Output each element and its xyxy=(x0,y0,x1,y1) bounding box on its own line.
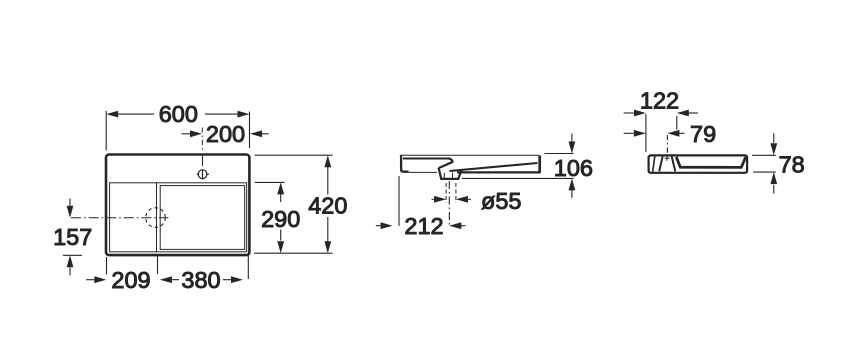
svg-text:200: 200 xyxy=(206,121,245,147)
dim 122 xyxy=(624,113,698,152)
dim o55 xyxy=(432,183,472,203)
end view drain centerline cross xyxy=(665,156,670,161)
dim 290 xyxy=(255,182,285,240)
dim 78 xyxy=(752,133,776,193)
dim 380 xyxy=(172,256,248,280)
top rim thin line xyxy=(400,154,539,156)
plan shelf inner outline xyxy=(110,183,157,252)
plan outer body rect xyxy=(106,155,249,256)
drain trap xyxy=(439,168,462,179)
svg-text:420: 420 xyxy=(308,193,347,219)
dim 420 xyxy=(254,155,333,253)
drain pipe walls xyxy=(444,173,452,179)
dim 157 xyxy=(63,199,82,276)
basin sloped bottom xyxy=(450,163,538,171)
shelf front step elbow xyxy=(439,158,453,168)
svg-text:79: 79 xyxy=(690,121,716,147)
svg-text:78: 78 xyxy=(779,152,805,178)
dim 79 xyxy=(624,133,685,158)
end view trap right side xyxy=(672,157,676,172)
faucet centerline up (ext of 200) xyxy=(201,128,203,153)
dim 209 xyxy=(86,256,158,280)
svg-text:290: 290 xyxy=(261,206,300,232)
svg-text:380: 380 xyxy=(181,267,220,293)
dim 200 xyxy=(182,133,269,135)
basin bottom slab xyxy=(457,171,541,173)
shelf cut profile thick xyxy=(401,156,409,172)
dim 600 xyxy=(106,111,249,151)
svg-text:212: 212 xyxy=(404,213,443,239)
dim 106 xyxy=(462,134,574,199)
drain dashed circle xyxy=(146,208,166,228)
horizontal centerline through drain xyxy=(71,217,169,219)
plan basin outer rim xyxy=(157,183,247,252)
end view left inner slant xyxy=(653,157,655,172)
svg-text:157: 157 xyxy=(53,224,92,250)
end view outer body xyxy=(649,155,748,172)
end view bowl profile xyxy=(676,157,745,168)
svg-text:122: 122 xyxy=(640,88,679,114)
right wall xyxy=(538,155,541,172)
svg-text:ø55: ø55 xyxy=(481,188,522,214)
svg-text:209: 209 xyxy=(111,267,150,293)
svg-text:600: 600 xyxy=(159,101,198,127)
plan basin inner rim xyxy=(160,186,245,250)
shelf bottom thin line xyxy=(409,171,437,173)
faucet hole symbol xyxy=(197,156,209,180)
dim 212 xyxy=(376,176,466,226)
end view trap left side xyxy=(659,157,662,172)
svg-text:106: 106 xyxy=(554,155,593,181)
